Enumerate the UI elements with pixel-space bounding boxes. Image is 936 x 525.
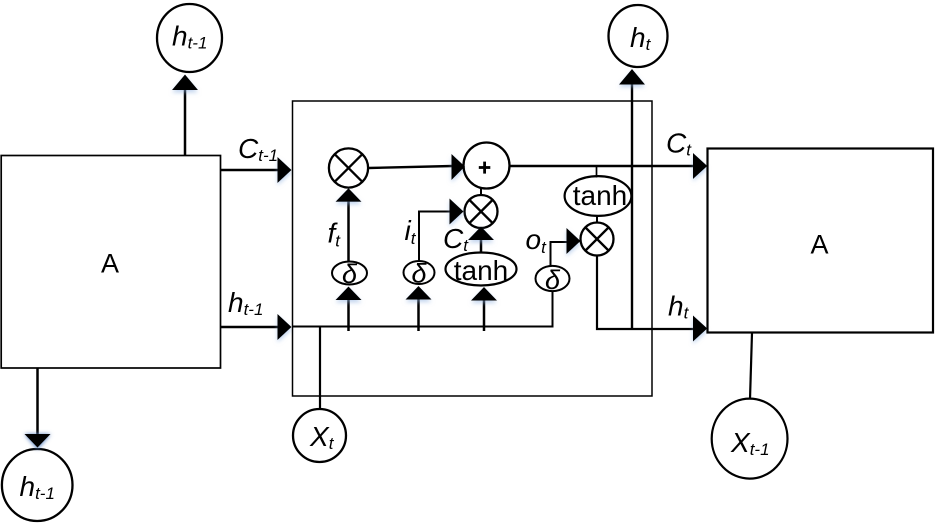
- wire: adder down to X2: [480, 188, 482, 196]
- svg-text:Ct: Ct: [443, 223, 469, 255]
- svg-text:Xt: Xt: [309, 421, 335, 453]
- adder +: [464, 143, 510, 189]
- wire: h_t-1 from A into LSTM box: [221, 314, 292, 340]
- wire: X_t up to bus: [319, 327, 321, 410]
- node h_t (top circle): [609, 5, 668, 67]
- wire: sigma1 up to X1: [336, 188, 362, 261]
- wire: bus up to sigma1: [336, 287, 362, 332]
- svg-text:Ct: Ct: [666, 128, 692, 160]
- wire: tanh up to X2: [468, 227, 494, 253]
- node h_t-1 (bottom left circle): [2, 449, 73, 521]
- svg-text:ft: ft: [328, 218, 342, 251]
- wire: C line from adder to block A (right): [510, 153, 708, 179]
- wire: bus up to tanh: [471, 287, 497, 331]
- wire: sigma3 elbow to X3: [551, 228, 581, 266]
- wire: X3 down and right toward outputs: [597, 256, 707, 342]
- svg-text:δ: δ: [545, 265, 561, 295]
- wire: C_t-1 from A into LSTM box: [221, 157, 292, 183]
- wire: A top edge up to h_t-1 (top left): [172, 75, 198, 156]
- svg-text:tanh: tanh: [573, 180, 628, 211]
- svg-text:ht: ht: [630, 22, 652, 54]
- block A (left): [1, 156, 220, 369]
- node X_t: [293, 409, 346, 462]
- wire: h_t-1 bus inside box: [293, 326, 553, 328]
- svg-text:δ: δ: [342, 259, 358, 289]
- sigma 2 (input gate): [404, 259, 435, 289]
- svg-text:Ct-1: Ct-1: [238, 133, 278, 165]
- wire: tick from C line down to tanh (output side): [596, 166, 598, 178]
- sigma 3 (output gate): [536, 265, 570, 295]
- svg-text:tanh: tanh: [454, 255, 509, 286]
- multiplier X2 (input gate product): [465, 195, 498, 228]
- svg-text:A: A: [810, 230, 828, 260]
- svg-text:ot: ot: [526, 224, 548, 257]
- svg-text:ht-1: ht-1: [20, 471, 55, 503]
- LSTM cell box: [293, 101, 653, 396]
- multiplier X1 (forget gate product): [329, 148, 368, 187]
- tanh (candidate activation): [446, 253, 517, 287]
- svg-text:it: it: [405, 215, 417, 248]
- wire: A bottom edge down to h_t-1 (bottom left): [25, 368, 51, 450]
- node h_t-1 (top left circle): [157, 4, 222, 72]
- wire: sigma2 elbow to X2: [419, 199, 464, 262]
- wire: A (right) bottom down to X_t-1: [750, 333, 752, 399]
- node X_t-1: [712, 399, 788, 479]
- wire: X1 to adder: [368, 154, 465, 180]
- wire: h_t branch up to h_t circle: [619, 69, 645, 329]
- wire: bus up to sigma2: [406, 286, 432, 331]
- block A (right): [708, 149, 934, 333]
- tanh (output activation): [565, 176, 632, 216]
- multiplier X3 (output gate product): [581, 223, 614, 256]
- svg-text:ht-1: ht-1: [228, 287, 263, 319]
- svg-text:Xt-1: Xt-1: [730, 427, 770, 459]
- svg-text:A: A: [101, 249, 119, 279]
- wire: tanh (output) down to X3: [596, 216, 598, 224]
- svg-text:ht: ht: [668, 291, 690, 323]
- sigma 1 (forget gate): [332, 259, 367, 289]
- wire: sigma3 down to bus: [552, 291, 554, 328]
- svg-text:δ: δ: [411, 259, 427, 289]
- svg-text:ht-1: ht-1: [172, 21, 207, 53]
